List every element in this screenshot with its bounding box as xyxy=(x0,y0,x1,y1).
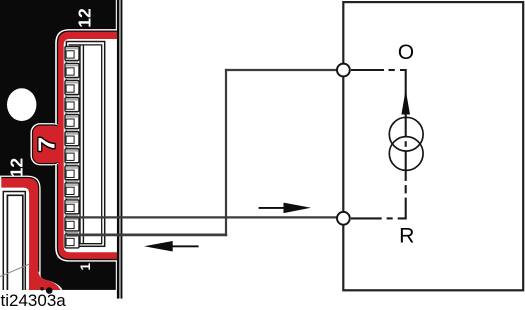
svg-text:1: 1 xyxy=(78,263,93,271)
svg-text:O: O xyxy=(398,41,414,64)
svg-text:12: 12 xyxy=(6,158,26,178)
svg-text:7: 7 xyxy=(34,137,60,152)
svg-text:ti24303a: ti24303a xyxy=(1,291,67,310)
svg-text:R: R xyxy=(399,224,414,247)
svg-text:12: 12 xyxy=(74,8,94,28)
